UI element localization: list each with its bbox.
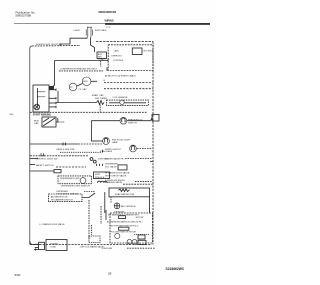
svg-text:ON CONTROL SWITCH: ON CONTROL SWITCH [56,193,78,195]
svg-text:COMPRESSOR WINDING PROTECT: COMPRESSOR WINDING PROTECT [60,69,98,71]
svg-text:W/ DAMPER SWITCH: W/ DAMPER SWITCH [51,198,73,201]
svg-text:FRZR & DEF HTR: FRZR & DEF HTR [56,149,74,151]
svg-text:OL CAP: OL CAP [79,88,87,91]
svg-text:4 WH LEADS: 4 WH LEADS [100,150,113,153]
svg-text:ATTACH TO (2) WHITE LEADS: ATTACH TO (2) WHITE LEADS [105,74,136,77]
svg-text:POWER: POWER [50,243,58,245]
svg-text:DEF TIMER: DEF TIMER [95,98,107,100]
svg-text:SOL VALVE: SOL VALVE [105,166,117,169]
svg-text:DISPENSER: DISPENSER [105,164,118,166]
svg-text:HOLDING SWITCH MOTOR: HOLDING SWITCH MOTOR [111,231,137,233]
svg-text:ICE MAKER MOLD HEATER WTR: ICE MAKER MOLD HEATER WTR [108,213,140,216]
svg-text:LIGHT: LIGHT [74,30,81,32]
svg-text:FRESH FOOD: FRESH FOOD [128,120,143,122]
svg-text:ICE MAKER: ICE MAKER [114,211,125,214]
svg-text:1 WH CON WATER VALVE: 1 WH CON WATER VALVE [80,245,105,248]
svg-text:AT FREEZING WATER SOLENOID FIL: AT FREEZING WATER SOLENOID FILL [107,220,144,223]
svg-text:1 2 3: 1 2 3 [106,27,110,29]
svg-text:BLK: BLK [10,114,14,116]
svg-text:FRZ FOOD LIGHT: FRZ FOOD LIGHT [112,139,131,141]
svg-text:LAMP: LAMP [112,141,118,144]
svg-text:WATER VALVE FR: WATER VALVE FR [105,157,124,160]
svg-text:ST: ST [70,87,73,89]
svg-text:TO ADC: TO ADC [98,58,106,61]
svg-text:RUN: RUN [34,121,39,123]
svg-text:LO WATER SOLN VALVE: LO WATER SOLN VALVE [40,223,66,226]
svg-text:RUN: RUN [83,81,88,83]
svg-text:COIL SENSOR: COIL SENSOR [113,97,128,99]
svg-text:START CAP: START CAP [92,94,105,97]
svg-text:DEFROST: DEFROST [111,56,122,58]
svg-text:4 WH SW: 4 WH SW [98,158,107,160]
svg-text:SHUTOFF ARM SWITCH HOLD: SHUTOFF ARM SWITCH HOLD [109,224,138,227]
svg-text:NO TEST: NO TEST [144,50,154,52]
svg-text:DISPENSER LIGHT SWITCH: DISPENSER LIGHT SWITCH [61,186,90,188]
svg-text:CORD: CORD [50,246,56,248]
svg-text:MOD: MOD [98,56,103,58]
svg-text:SWITCHES: SWITCHES [95,30,107,32]
svg-text:SWITCH: SWITCH [128,122,137,124]
svg-text:EVAP FAN MOTOR: EVAP FAN MOTOR [115,193,135,196]
svg-text:MRS22WRGD0: MRS22WRGD0 [99,11,117,14]
svg-text:START WINDING: START WINDING [33,114,52,117]
svg-text:AUGER MOTOR: AUGER MOTOR [51,196,68,199]
svg-text:CAP: CAP [34,122,39,125]
svg-text:4 BLK WH: 4 BLK WH [102,248,113,250]
svg-text:HI WATER SOLN VALVE: HI WATER SOLN VALVE [105,171,130,174]
svg-text:HTR SW: HTR SW [136,217,144,219]
svg-text:DISP: DISP [95,174,101,176]
svg-text:S218662WC: S218662WC [166,267,185,271]
svg-text:MODULE: MODULE [95,177,105,179]
svg-text:SAFETY SWITCH: SAFETY SWITCH [36,164,54,167]
svg-text:6/00: 6/00 [15,273,21,277]
svg-text:CONTROL: CONTROL [113,60,124,62]
svg-text:5995327588: 5995327588 [16,14,32,18]
svg-text:ADC SENSOR: ADC SENSOR [121,205,136,208]
svg-text:B WATER VALVE: B WATER VALVE [105,181,123,184]
svg-text:28: 28 [108,272,112,276]
svg-text:ADC: ADC [115,49,120,52]
svg-text:WIRING: WIRING [105,20,114,23]
svg-text:CONTROL LIGHT SW: CONTROL LIGHT SW [36,158,59,160]
svg-text:WITH CHECK VALVE: WITH CHECK VALVE [105,174,127,177]
svg-text:B: B [104,80,106,82]
svg-text:INTERIOR LIGHT CIRCUIT WH: INTERIOR LIGHT CIRCUIT WH [36,44,62,46]
svg-text:DISPENSER LIGHT: DISPENSER LIGHT [60,178,80,180]
